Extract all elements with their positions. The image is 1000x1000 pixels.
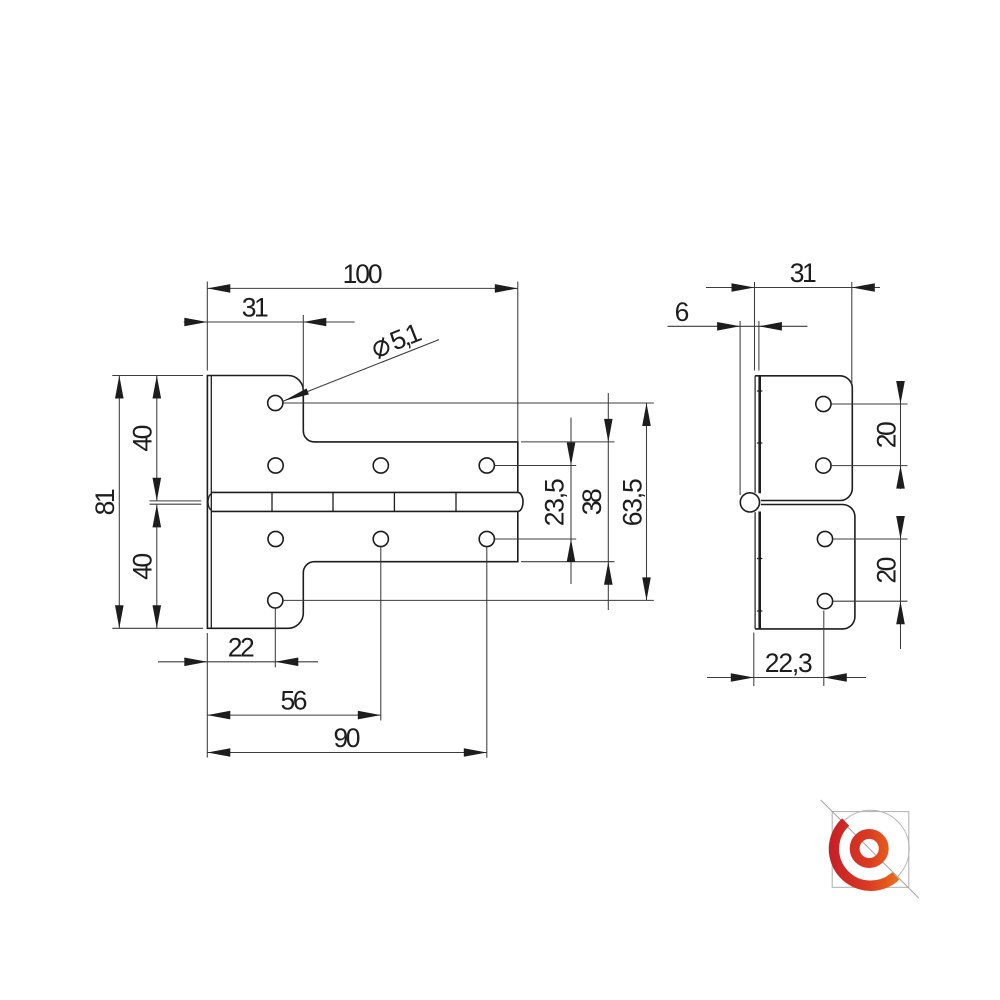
arrow 6 left bbox=[717, 322, 740, 331]
hole bottom bbox=[268, 593, 283, 608]
arrow 6 right bbox=[759, 322, 782, 331]
arrow 90 right bbox=[464, 748, 487, 757]
dim line 20 lower bbox=[900, 516, 902, 649]
ext 90 hole vertical bbox=[486, 547, 488, 758]
side hole upper 2 bbox=[816, 458, 831, 473]
arrow 81 bottom bbox=[115, 605, 124, 628]
svg-text:31: 31 bbox=[790, 258, 817, 288]
svg-text:100: 100 bbox=[343, 259, 383, 289]
arrow 31s left bbox=[732, 283, 755, 292]
knuckle tick 2 bbox=[332, 492, 334, 511]
svg-text:6: 6 bbox=[675, 297, 690, 327]
leader line 5,1 bbox=[284, 340, 440, 401]
dim line 31 bbox=[184, 321, 355, 323]
side leaf thick line bbox=[758, 376, 761, 629]
arrow 23,5 bottom bbox=[567, 539, 576, 562]
arrow 56 right bbox=[358, 711, 381, 720]
fold line (inner left edge) bbox=[210, 376, 212, 629]
ext right top vertical bbox=[517, 282, 519, 442]
ext 56 hole vertical bbox=[380, 547, 382, 721]
ext side 31 left bbox=[754, 282, 756, 371]
side lower flap bbox=[755, 505, 855, 629]
knuckle pin right cap bbox=[518, 492, 523, 511]
ext bottom hole horizontal bbox=[283, 599, 654, 601]
logo square bbox=[832, 812, 909, 888]
dim line 6 bbox=[668, 325, 808, 327]
dim line 20 upper bbox=[900, 381, 902, 489]
arrow 31s right bbox=[852, 283, 875, 292]
svg-text:22,3: 22,3 bbox=[765, 648, 813, 678]
knuckle band top edge bbox=[211, 491, 518, 493]
arrow 20l bottom bbox=[896, 601, 905, 624]
arrow leader 5,1 bbox=[284, 388, 309, 401]
side sheet tick 1 bbox=[757, 390, 763, 392]
arrow 38 top bbox=[604, 419, 613, 442]
dim line 31 side bbox=[706, 287, 880, 289]
ext top horizontal bbox=[112, 375, 203, 377]
ext side hole u2 bbox=[832, 465, 908, 467]
arrow 40t top bbox=[153, 376, 162, 399]
arrow 100 right bbox=[495, 284, 518, 293]
logo inner ring bbox=[855, 834, 884, 863]
hole lower row 2 bbox=[373, 531, 388, 546]
hole upper row 3 bbox=[479, 458, 494, 473]
ext plate top right bbox=[521, 441, 615, 443]
svg-text:90: 90 bbox=[334, 723, 361, 753]
side pin circle bbox=[740, 493, 759, 512]
ext side hole l2 bbox=[833, 600, 908, 602]
arrow 56 left bbox=[207, 711, 230, 720]
side hole upper 1 bbox=[816, 396, 831, 411]
svg-text:63,5: 63,5 bbox=[617, 478, 647, 526]
dim line 56 bbox=[207, 714, 380, 716]
dim line 38 bbox=[607, 393, 609, 610]
ext bottom hole vertical bbox=[274, 609, 276, 668]
dim line 22,3 bbox=[707, 677, 866, 679]
svg-text:20: 20 bbox=[871, 557, 901, 584]
side hole lower 2 bbox=[817, 594, 832, 609]
dim line 63,5 bbox=[646, 403, 648, 600]
arrow 20l top bbox=[896, 516, 905, 539]
svg-text:38: 38 bbox=[577, 488, 607, 515]
arrow 22 right bbox=[275, 658, 298, 667]
logo circle bbox=[832, 810, 909, 887]
arrow 22,3 left bbox=[731, 673, 754, 682]
ext side hole u1 bbox=[832, 403, 908, 405]
ext side 6 right bbox=[758, 321, 760, 371]
arrow 90 left bbox=[207, 748, 230, 757]
side leaf thin line bbox=[754, 376, 756, 629]
ext side 6 left bbox=[739, 321, 741, 495]
label dia 5,1 bbox=[369, 317, 426, 363]
side sheet tick 3 bbox=[757, 558, 763, 560]
side sheet tick 4 bbox=[757, 610, 763, 612]
logo diagonal bbox=[821, 800, 919, 898]
arrow 23,5 top bbox=[567, 443, 576, 466]
ext upper row right bbox=[495, 465, 577, 467]
arrow 22 left bbox=[184, 658, 207, 667]
dim line 22 bbox=[158, 661, 318, 663]
ext left top vertical bbox=[206, 282, 208, 371]
dim line 23,5 bbox=[570, 418, 572, 584]
hole top bbox=[268, 395, 283, 410]
side sheet tick 2 bbox=[757, 442, 763, 444]
svg-text:22: 22 bbox=[228, 632, 255, 662]
ext 31 right vertical bbox=[302, 315, 304, 390]
ext side 22,3 right bbox=[823, 611, 825, 687]
arrow 63,5 bottom bbox=[642, 577, 651, 600]
arrow 22,3 right bbox=[824, 673, 847, 682]
knuckle band bottom edge bbox=[211, 510, 518, 512]
arrow 31 left bbox=[184, 318, 207, 327]
dim line 40 bottom bbox=[156, 504, 158, 628]
knuckle pin left cap bbox=[208, 494, 212, 511]
ext lower row right bbox=[495, 538, 577, 540]
front plate outline bbox=[207, 376, 517, 629]
ext side 22,3 left bbox=[753, 633, 755, 687]
arrow 20u top bbox=[896, 381, 905, 404]
pin centre line lower bbox=[150, 503, 202, 505]
ext left bottom vertical bbox=[206, 633, 208, 758]
hole lower row 1 bbox=[268, 531, 283, 546]
logo outer arc bbox=[834, 822, 896, 886]
arrow 38 bottom bbox=[604, 562, 613, 585]
side hole lower 1 bbox=[817, 531, 832, 546]
svg-text:81: 81 bbox=[90, 488, 120, 515]
arrow 100 left bbox=[207, 284, 230, 293]
arrow 40t bottom bbox=[153, 478, 162, 501]
arrow 40b top bbox=[153, 504, 162, 527]
svg-text:20: 20 bbox=[871, 421, 901, 448]
svg-text:23,5: 23,5 bbox=[540, 478, 570, 526]
ext side 31 right bbox=[851, 282, 853, 384]
svg-text:40: 40 bbox=[128, 553, 158, 580]
svg-text:56: 56 bbox=[281, 686, 308, 716]
hole lower row 3 bbox=[479, 531, 494, 546]
ext plate bottom right bbox=[521, 561, 615, 563]
arrow 63,5 top bbox=[642, 403, 651, 426]
ext side hole l1 bbox=[833, 538, 908, 540]
hole upper row 2 bbox=[373, 458, 388, 473]
side upper flap bbox=[755, 376, 852, 501]
dim line 90 bbox=[207, 752, 487, 754]
svg-text:31: 31 bbox=[242, 293, 269, 323]
arrow 81 top bbox=[115, 376, 124, 399]
svg-text:40: 40 bbox=[128, 425, 158, 452]
knuckle tick 1 bbox=[271, 492, 273, 511]
dim line 100 bbox=[207, 287, 518, 289]
hole upper row 1 bbox=[268, 458, 283, 473]
knuckle tick 4 bbox=[455, 492, 457, 511]
dim line 40 top bbox=[156, 376, 158, 501]
pin centre line upper bbox=[150, 500, 202, 502]
ext bottom horizontal bbox=[112, 627, 203, 629]
knuckle tick 3 bbox=[393, 492, 395, 511]
ext top hole horizontal bbox=[283, 402, 654, 404]
arrow 20u bottom bbox=[896, 466, 905, 489]
dim line 81 bbox=[118, 376, 120, 629]
arrow 40b bottom bbox=[153, 605, 162, 628]
arrow 31 right bbox=[303, 318, 326, 327]
